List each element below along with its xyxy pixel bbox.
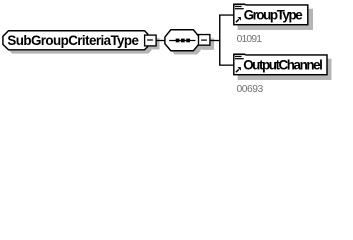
svg-text:OutputChannel: OutputChannel bbox=[243, 58, 322, 73]
svg-text:GroupType: GroupType bbox=[244, 8, 303, 23]
svg-text:01091: 01091 bbox=[237, 34, 263, 45]
svg-text:00693: 00693 bbox=[237, 84, 264, 95]
svg-text:SubGroupCriteriaType: SubGroupCriteriaType bbox=[7, 33, 138, 48]
